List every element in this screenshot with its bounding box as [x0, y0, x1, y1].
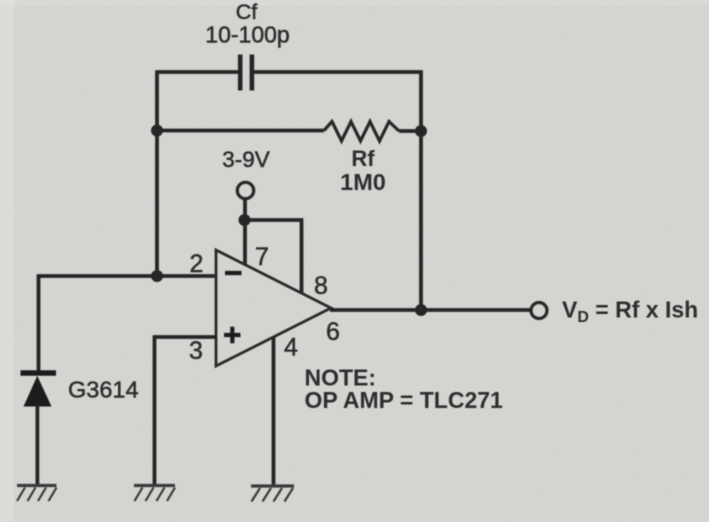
wire: top Cf branch left segment [157, 70, 238, 74]
wire: pin 2 input [39, 274, 217, 278]
capacitor Cf [240, 55, 252, 91]
label G3614 [68, 377, 139, 403]
svg-text:4: 4 [284, 334, 298, 362]
svg-text:1M0: 1M0 [340, 169, 386, 195]
pin 6 label [326, 318, 340, 346]
svg-text:2: 2 [190, 250, 204, 278]
svg-text:Cf: Cf [236, 0, 258, 24]
pin 3 label [189, 337, 203, 365]
label Cf [236, 0, 258, 24]
junction dot left Rf node [151, 125, 163, 137]
svg-text:10-100p: 10-100p [205, 22, 289, 48]
svg-text:6: 6 [326, 318, 340, 346]
note text line 1 [305, 365, 377, 391]
wire: output pin 6 [330, 308, 530, 312]
wire: pin 3 vertical drop [153, 335, 157, 485]
wire: Rf branch left segment [157, 129, 324, 133]
label VD = Rf x Ish [562, 297, 698, 327]
svg-text:G3614: G3614 [68, 377, 139, 403]
photodiode G3614 [21, 373, 57, 407]
junction dot output node [415, 304, 427, 316]
note text line 2 [305, 387, 504, 413]
ground (pin 3) [134, 486, 175, 502]
wire: Rf branch right segment [399, 129, 421, 133]
label Rf [351, 146, 375, 171]
wire: top Cf branch right segment [254, 70, 421, 74]
wire: pin 3 to ground run [155, 335, 217, 339]
op-amp non-inverting input plus [224, 327, 241, 344]
ground (pin 4) [251, 486, 294, 502]
svg-text:7: 7 [255, 243, 269, 271]
output terminal circle [531, 303, 547, 319]
wire: photodiode cathode drop [37, 274, 41, 370]
svg-text:Rf: Rf [351, 146, 375, 171]
pin 7 label [255, 243, 269, 271]
junction dot supply node [239, 214, 251, 226]
pin 8 label [314, 272, 328, 300]
ground (photodiode) [17, 486, 57, 502]
wire: right vertical feedback rail [419, 70, 423, 310]
pin 2 label [190, 250, 204, 278]
pin 4 label [284, 334, 298, 362]
label 10-100p [205, 22, 289, 48]
label 3-9V [222, 147, 270, 172]
op-amp inverting input minus [225, 271, 242, 275]
junction dot inverting input node [151, 270, 163, 282]
wire: supply node to pin 8 [245, 220, 302, 293]
svg-text:OP AMP = TLC271: OP AMP = TLC271 [305, 387, 504, 413]
wire: pin 4 vertical drop [272, 337, 276, 486]
supply terminal circle [237, 182, 253, 198]
label 1M0 [340, 169, 386, 195]
svg-text:8: 8 [314, 272, 328, 300]
wire: supply to pin 7 [243, 200, 247, 265]
junction dot right Rf node [415, 125, 427, 137]
resistor Rf [324, 122, 399, 142]
wire: photodiode anode to ground [36, 406, 40, 486]
wire: left vertical feedback rail [155, 70, 159, 276]
svg-text:3: 3 [189, 337, 203, 365]
op-amp U1 [216, 250, 331, 366]
svg-text:3-9V: 3-9V [222, 147, 270, 172]
